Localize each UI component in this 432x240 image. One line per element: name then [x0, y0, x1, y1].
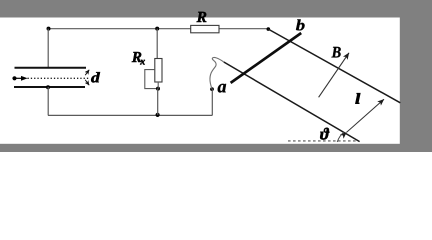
capacitor bottom plate [14, 86, 85, 88]
label R [197, 12, 207, 22]
white drawing background [0, 0, 432, 152]
dashed baseline [288, 140, 358, 142]
d dimension arrow upper [85, 70, 89, 75]
node: junction dot at Rx top [155, 27, 159, 31]
wire: Rx box bottom stub [157, 82, 159, 89]
wire: Rx to bottom wire [157, 89, 159, 115]
gray bottom band [0, 144, 432, 152]
wire: vertical to capacitor top plate [47, 29, 49, 68]
resistor R box [191, 25, 219, 32]
label l [356, 93, 361, 103]
particle velocity arrow [15, 77, 22, 79]
label Rx [132, 52, 142, 62]
label d [91, 72, 100, 82]
label theta [320, 128, 329, 140]
angle arc [337, 132, 344, 142]
particle entry dot [12, 76, 16, 80]
dotted beam path [28, 77, 91, 79]
capacitor top plate [15, 67, 87, 69]
d dimension arrow lower [85, 80, 89, 85]
node: dot a [210, 87, 214, 91]
node: wire end dot at rail 1 start [267, 27, 271, 31]
rail 1 (upper) [268, 29, 400, 103]
label B [331, 47, 340, 58]
l dimension arrow [347, 99, 384, 132]
label b [296, 19, 305, 30]
label a [218, 84, 226, 93]
rod ab [231, 33, 302, 83]
node: dot on bottom plate [46, 85, 50, 89]
B field arrow [319, 53, 349, 98]
squiggle wire from a to rail 2 [210, 57, 224, 88]
wire: Rx branch vertical upper [156, 29, 158, 59]
gray top band [0, 0, 432, 18]
rail 2 (lower) [224, 62, 360, 142]
node: junction dot bottom Rx [156, 113, 160, 117]
wire: vertical up to a [211, 89, 213, 115]
wire: bottom horizontal [48, 114, 212, 116]
rheostat wiper loop [145, 70, 158, 89]
resistor Rx box [155, 59, 162, 83]
gray right column [400, 0, 432, 152]
wire: top horizontal, capacitor to R [49, 28, 191, 30]
node: junction dot top-left [47, 27, 51, 31]
wire: vertical from bottom plate down [47, 87, 49, 115]
node: dot below Rx box [156, 87, 160, 91]
wire: top horizontal, R to rail junction [219, 28, 268, 30]
